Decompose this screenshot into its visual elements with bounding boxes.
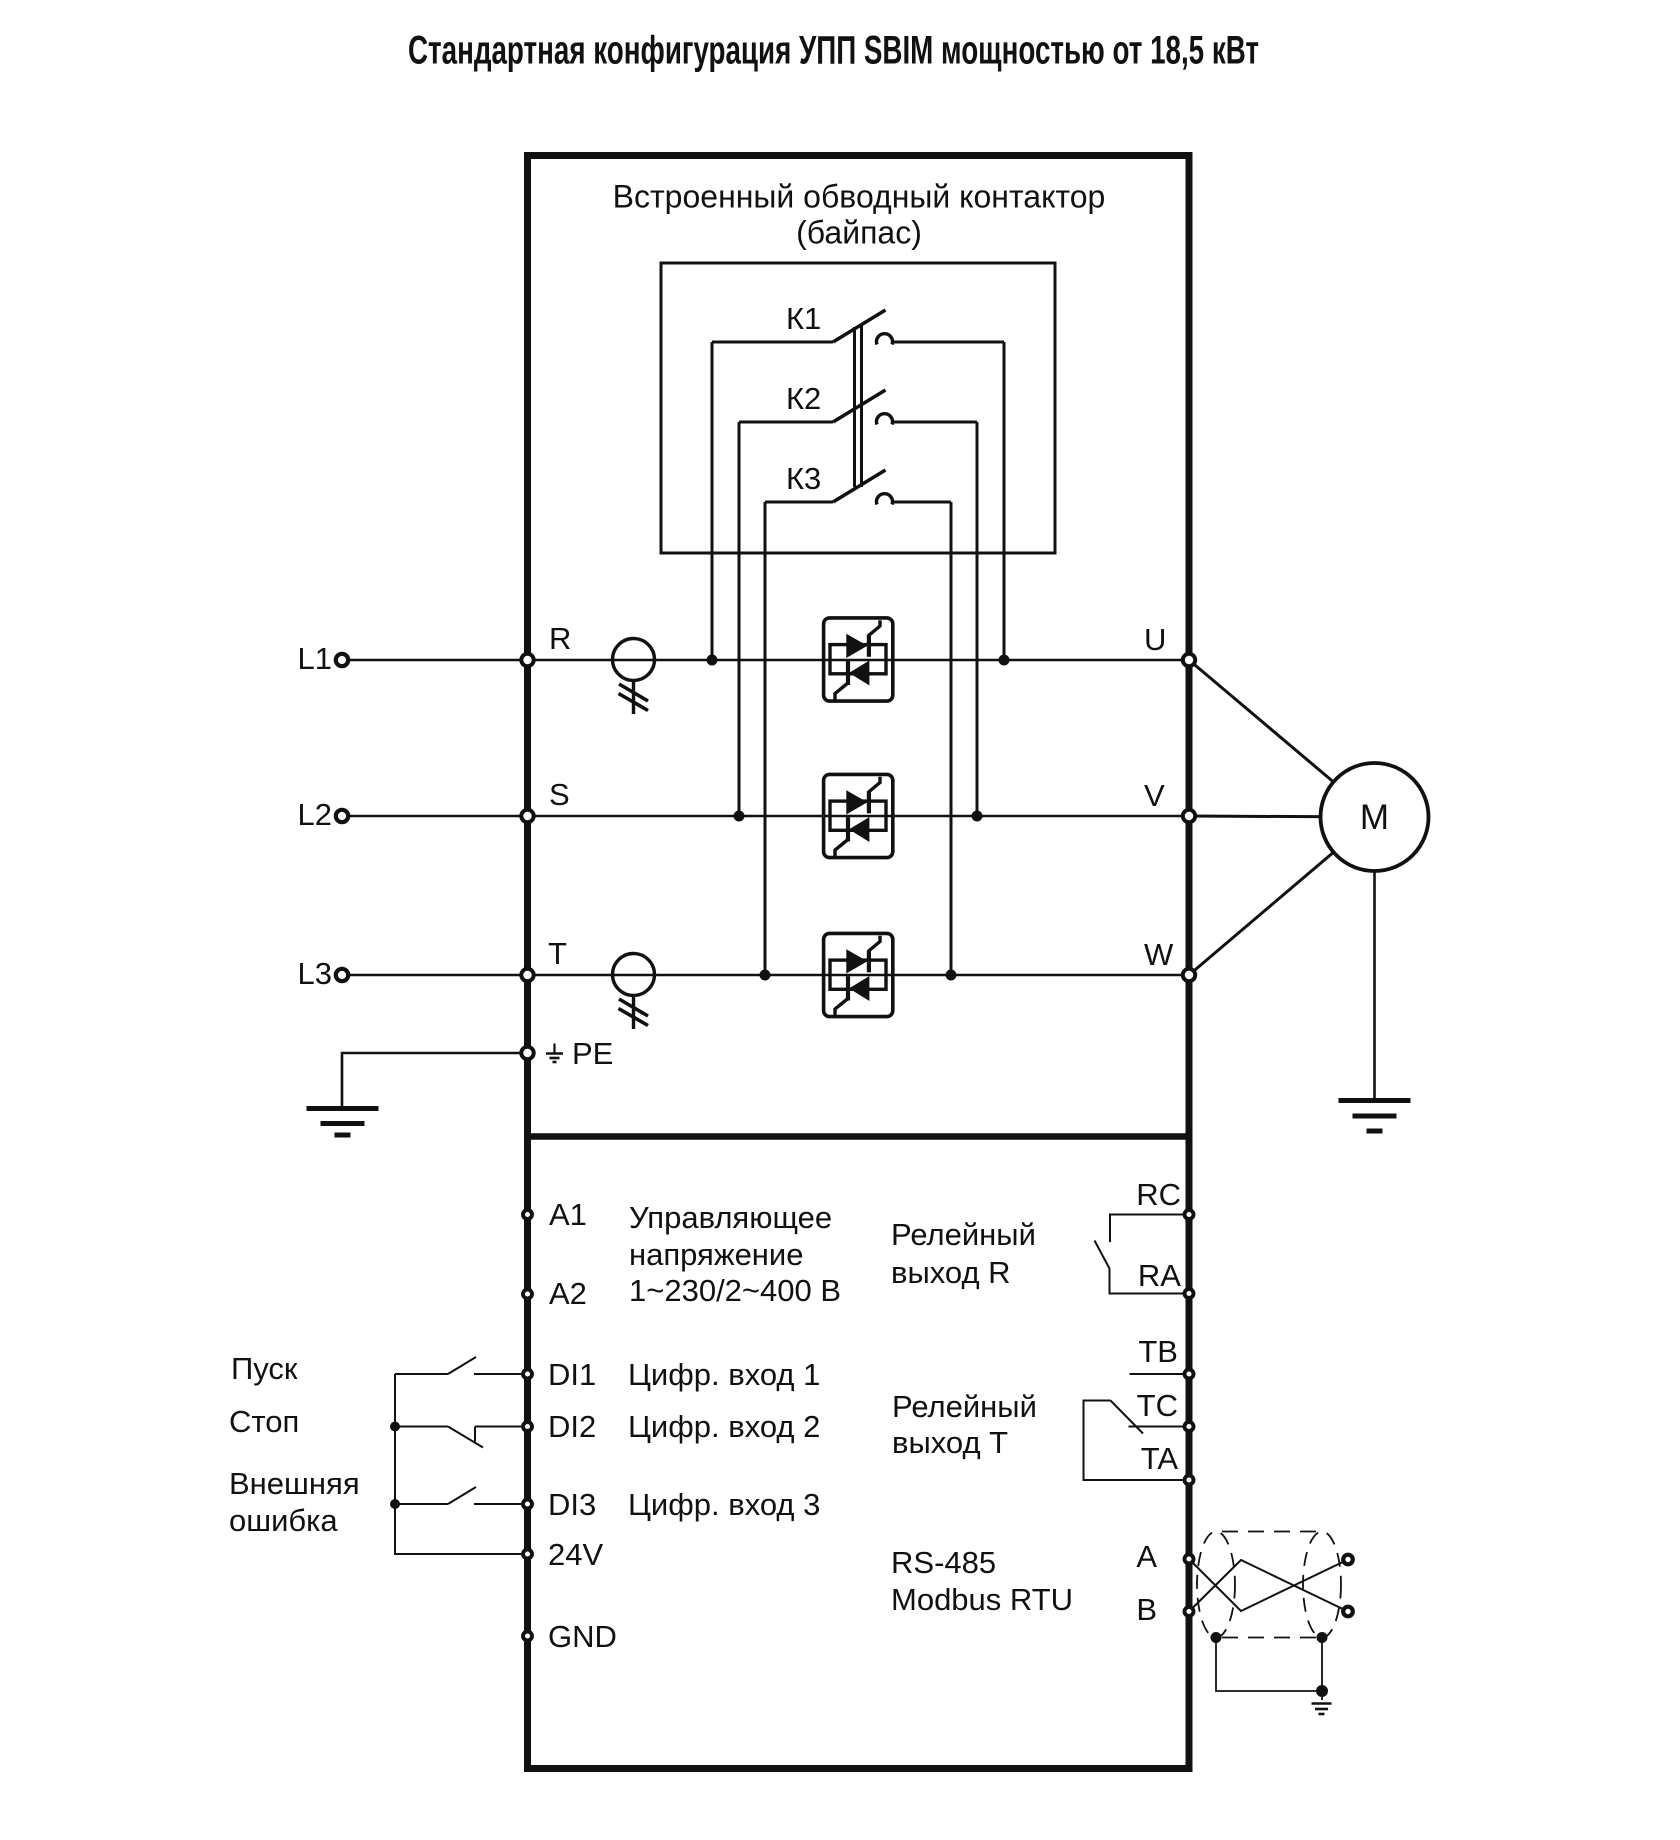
junction fault bus — [390, 1499, 400, 1509]
svg-text:ошибка: ошибка — [229, 1503, 338, 1538]
svg-text:Стоп: Стоп — [229, 1404, 299, 1439]
wire V to motor — [1189, 816, 1375, 817]
svg-text:Внешняя: Внешняя — [229, 1466, 360, 1501]
thyristor pair T phase — [824, 933, 893, 1016]
wire W to motor — [1189, 817, 1375, 975]
contact K1 — [712, 310, 1004, 345]
switch external fault (NO) — [395, 1487, 521, 1504]
svg-text:GND: GND — [548, 1619, 617, 1654]
node RC — [1185, 1210, 1194, 1219]
svg-text:выход R: выход R — [891, 1255, 1011, 1290]
twisted pair wire B — [1189, 1560, 1348, 1612]
svg-text:DI1: DI1 — [548, 1357, 596, 1392]
node B — [1185, 1607, 1194, 1616]
node 24V — [523, 1550, 532, 1559]
wire S phase inside box — [531, 815, 1186, 818]
svg-text:Цифр. вход 3: Цифр. вход 3 — [628, 1487, 820, 1522]
shield drain junction left — [1211, 1632, 1222, 1643]
PE earth mark — [546, 1044, 563, 1063]
svg-text:L1: L1 — [298, 641, 332, 676]
wire L1 to box — [349, 659, 524, 662]
node V — [1183, 810, 1195, 822]
svg-text:M: M — [1360, 798, 1389, 837]
node DI2 — [523, 1422, 532, 1431]
svg-text:L3: L3 — [298, 956, 332, 991]
wire PE to ground — [342, 1053, 521, 1106]
wire L3 to box — [349, 974, 524, 977]
wire K3 left riser — [764, 502, 767, 975]
switch Pusk (NO) — [395, 1357, 521, 1374]
terminal A remote — [1343, 1555, 1353, 1565]
shield drain wires — [1216, 1638, 1322, 1701]
junction Stop bus — [390, 1422, 400, 1432]
svg-text:RS-485: RS-485 — [891, 1545, 996, 1580]
junction K3-W — [946, 970, 957, 981]
wire L2 to box — [349, 815, 524, 818]
junction shield ground — [1316, 1685, 1328, 1697]
node A — [1185, 1555, 1194, 1564]
thyristor pair R phase — [824, 618, 893, 701]
svg-text:24V: 24V — [548, 1537, 603, 1572]
control voltage text — [629, 1200, 841, 1308]
terminal L1 — [336, 654, 348, 666]
svg-text:Релейный: Релейный — [891, 1217, 1036, 1252]
svg-text:B: B — [1136, 1592, 1157, 1627]
svg-text:RC: RC — [1136, 1177, 1181, 1212]
relay T contact — [1084, 1374, 1184, 1480]
terminal B remote — [1343, 1607, 1353, 1617]
svg-text:К2: К2 — [786, 381, 821, 416]
svg-text:Управляющее: Управляющее — [629, 1200, 832, 1235]
bypass contactor box — [661, 263, 1055, 553]
svg-text:Встроенный обводный контактор: Встроенный обводный контактор — [613, 179, 1106, 215]
svg-text:A: A — [1136, 1539, 1157, 1574]
svg-text:PE: PE — [572, 1036, 613, 1071]
input common bus wire — [395, 1374, 521, 1554]
ground of PE — [307, 1109, 379, 1136]
node TC — [1185, 1422, 1194, 1431]
cable shield bottom dashed line — [1222, 1637, 1316, 1639]
node U — [1183, 654, 1195, 666]
cable shield top dashed line — [1222, 1531, 1316, 1533]
main enclosure box — [528, 156, 1190, 1769]
node TB — [1185, 1370, 1194, 1379]
svg-text:U: U — [1144, 622, 1166, 657]
junction K2-V — [972, 811, 983, 822]
svg-text:Цифр. вход 2: Цифр. вход 2 — [628, 1409, 820, 1444]
node PE on box edge — [521, 1047, 533, 1059]
node DI3 — [523, 1500, 532, 1509]
svg-text:А1: А1 — [549, 1197, 587, 1232]
terminal L3 — [336, 969, 348, 981]
svg-text:TB: TB — [1138, 1334, 1178, 1369]
wire K2 left riser — [738, 422, 741, 816]
node DI1 — [523, 1370, 532, 1379]
junction K2-S — [734, 811, 745, 822]
svg-text:Пуск: Пуск — [231, 1351, 298, 1386]
ground of motor — [1339, 1101, 1411, 1132]
svg-text:R: R — [549, 621, 571, 656]
svg-text:А2: А2 — [549, 1276, 587, 1311]
svg-text:TC: TC — [1137, 1388, 1178, 1423]
svg-text:Стандартная конфигурация УПП S: Стандартная конфигурация УПП SBIM мощнос… — [408, 29, 1259, 73]
cable shield right ellipse — [1303, 1532, 1341, 1638]
contact K3 — [765, 470, 951, 505]
svg-text:К1: К1 — [786, 301, 821, 336]
wire K1 right riser — [1003, 342, 1006, 660]
junction K1-R — [707, 655, 718, 666]
switch Stop (NC) — [395, 1427, 521, 1448]
node RA — [1185, 1289, 1194, 1298]
wire K2 right riser — [976, 422, 979, 816]
node TA — [1185, 1476, 1194, 1485]
svg-text:напряжение: напряжение — [629, 1237, 803, 1272]
junction K3-T — [760, 970, 771, 981]
motor M — [1321, 763, 1429, 871]
svg-text:RA: RA — [1138, 1258, 1181, 1293]
svg-text:выход Т: выход Т — [892, 1425, 1008, 1460]
svg-text:Релейный: Релейный — [892, 1389, 1037, 1424]
divider between power and control sections — [524, 1133, 1193, 1140]
node L2 on box edge — [521, 810, 533, 822]
svg-text:T: T — [548, 936, 567, 971]
wire K1 left riser — [711, 342, 714, 660]
svg-text:К3: К3 — [786, 461, 821, 496]
wire K3 right riser — [950, 502, 953, 975]
contact K2 — [739, 390, 977, 425]
twisted pair wire A — [1189, 1559, 1348, 1611]
node GND — [523, 1632, 532, 1641]
wire U to motor — [1189, 660, 1375, 817]
svg-text:L2: L2 — [298, 797, 332, 832]
svg-text:DI3: DI3 — [548, 1487, 596, 1522]
svg-text:Modbus RTU: Modbus RTU — [891, 1582, 1073, 1617]
node A2 — [523, 1290, 532, 1299]
svg-text:V: V — [1144, 778, 1165, 813]
svg-text:DI2: DI2 — [548, 1409, 596, 1444]
node L3 on box edge — [521, 969, 533, 981]
svg-text:S: S — [549, 777, 570, 812]
node W — [1183, 969, 1195, 981]
svg-text:1~230/2~400 В: 1~230/2~400 В — [629, 1273, 841, 1308]
relay R contact — [1095, 1215, 1184, 1294]
wire motor to ground — [1373, 871, 1376, 1098]
wire R phase inside box — [531, 659, 1186, 662]
node A1 — [523, 1210, 532, 1219]
svg-text:(байпас): (байпас) — [796, 215, 922, 251]
cable shield left ellipse — [1197, 1532, 1235, 1638]
shield drain junction right — [1317, 1632, 1328, 1643]
relay output T text — [892, 1389, 1037, 1460]
current transformer on R — [613, 639, 655, 715]
current transformer on T — [613, 954, 655, 1030]
junction K1-U — [999, 655, 1010, 666]
terminal L2 — [336, 810, 348, 822]
node L1 on box edge — [521, 654, 533, 666]
svg-text:Цифр. вход 1: Цифр. вход 1 — [628, 1357, 820, 1392]
svg-text:TA: TA — [1141, 1441, 1179, 1476]
thyristor pair S phase — [824, 774, 893, 857]
ground of shield — [1312, 1704, 1332, 1715]
wire T phase inside box — [531, 974, 1186, 977]
relay output R text — [891, 1217, 1036, 1290]
svg-text:W: W — [1144, 937, 1174, 972]
mechanical linkage of K1-K3 — [855, 325, 862, 487]
